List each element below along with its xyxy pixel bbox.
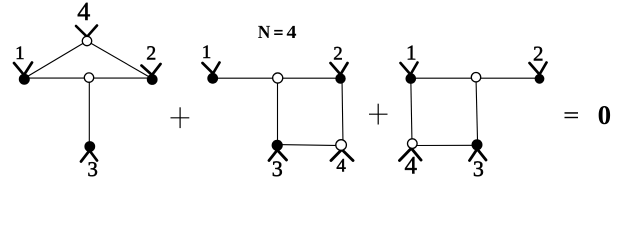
svg-text:1: 1 [406, 41, 417, 65]
svg-text:N: N [258, 23, 271, 43]
svg-text:3: 3 [87, 157, 98, 181]
svg-text:4: 4 [336, 156, 346, 177]
svg-text:3: 3 [272, 156, 283, 181]
svg-text:3: 3 [473, 156, 484, 181]
svg-text:4: 4 [287, 23, 297, 43]
svg-text:4: 4 [404, 153, 417, 180]
svg-text:1: 1 [15, 43, 25, 64]
svg-text:2: 2 [533, 41, 544, 65]
svg-text:2: 2 [146, 43, 156, 65]
svg-text:4: 4 [77, 0, 90, 26]
svg-text:1: 1 [202, 42, 212, 63]
svg-text:0: 0 [598, 100, 612, 130]
svg-text:2: 2 [333, 43, 343, 64]
